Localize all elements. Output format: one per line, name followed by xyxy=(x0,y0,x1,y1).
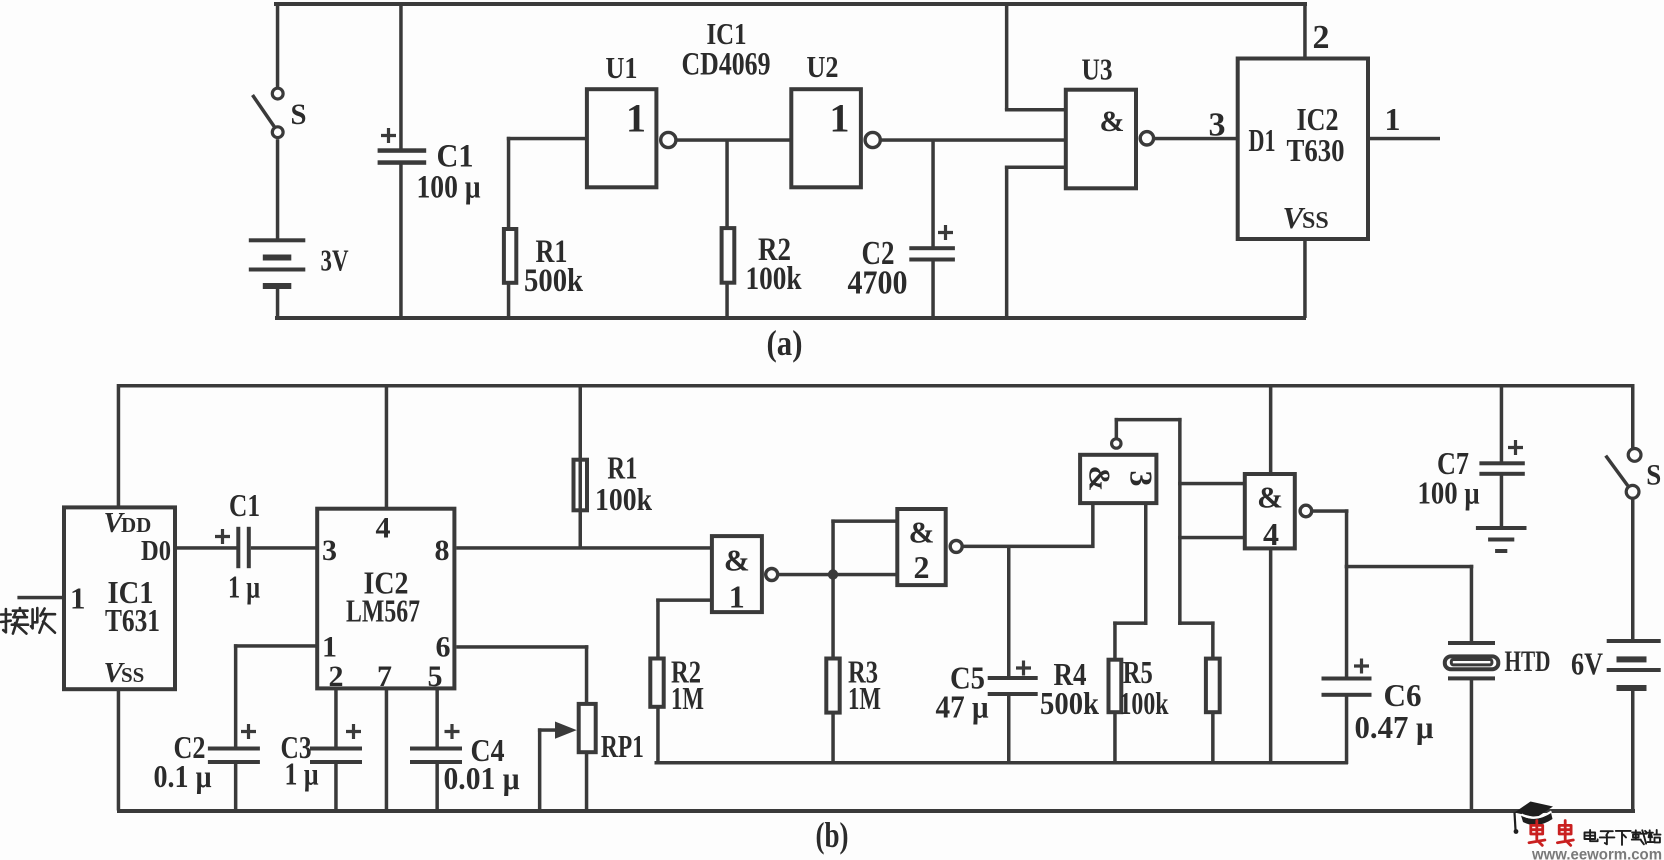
svg-text:8: 8 xyxy=(435,534,450,567)
capacitor C1 polarity + xyxy=(381,128,396,143)
svg-text:500k: 500k xyxy=(1040,685,1099,721)
resistor R2b xyxy=(650,659,663,707)
nand gate 2 output bubble xyxy=(950,540,962,552)
svg-text:6: 6 xyxy=(436,631,451,664)
capacitor C6 top plate xyxy=(1322,677,1372,681)
battery 3V plate long top xyxy=(249,238,305,242)
svg-text:47 μ: 47 μ xyxy=(936,689,989,725)
svg-text:4700: 4700 xyxy=(848,265,908,302)
svg-text:1M: 1M xyxy=(848,680,881,716)
svg-text:0.1 μ: 0.1 μ xyxy=(154,758,212,794)
wire: jog to R5 top xyxy=(1178,621,1215,625)
wire: LM567 pin2 to C3 xyxy=(334,690,338,749)
svg-text:www.eeworm.com: www.eeworm.com xyxy=(1531,847,1662,860)
wire: gate4 ground pin to sub rail xyxy=(1269,548,1273,764)
svg-text:3V: 3V xyxy=(321,242,349,277)
nand gate 3 output bubble xyxy=(1112,439,1121,448)
wire: U2 output to U3 input xyxy=(881,138,1066,142)
svg-text:3: 3 xyxy=(1209,107,1226,144)
svg-text:LM567: LM567 xyxy=(346,593,420,629)
capacitor C3 top plate xyxy=(310,747,362,751)
wire: C5 lower lead xyxy=(1007,695,1011,764)
wire: U3 third input drop to bottom rail xyxy=(1005,166,1009,319)
wire: circuit (a) bottom rail xyxy=(275,316,1306,320)
svg-text:S: S xyxy=(1646,459,1661,492)
svg-text:&: & xyxy=(1083,466,1118,492)
wire: U1 output to U2 input xyxy=(677,138,791,142)
wire: U3 first input horizontal xyxy=(1005,108,1066,112)
svg-text:0.01 μ: 0.01 μ xyxy=(444,760,520,796)
svg-text:CD4069: CD4069 xyxy=(682,46,771,82)
wire: C5 upper lead xyxy=(1007,546,1011,678)
wire: circuit (a) top rail xyxy=(274,2,1307,6)
wire: LM567 pin6 horizontal xyxy=(456,645,588,649)
resistor R1 xyxy=(504,229,516,283)
wire: switch to battery xyxy=(276,139,280,240)
wire: RP1 top lead xyxy=(585,645,589,703)
IC2 LM567 body xyxy=(317,509,454,689)
inverter U2 output bubble xyxy=(865,132,880,147)
wire: R1 top node to U1 input xyxy=(507,137,588,141)
capacitor C1 top lead xyxy=(399,2,403,149)
capacitor C3 bottom plate xyxy=(310,760,362,764)
potentiometer RP1 wiper arrow xyxy=(555,722,577,739)
wire: HTD lower lead to bottom rail xyxy=(1470,680,1474,811)
capacitor C7 bottom plate xyxy=(1479,472,1524,476)
svg-text:RP1: RP1 xyxy=(601,728,644,764)
wire: C7 to ground xyxy=(1500,475,1504,528)
capacitor C1 bottom plate xyxy=(378,160,427,165)
wire: top rail right corner down to switch xyxy=(1631,384,1635,448)
svg-text:(b): (b) xyxy=(816,815,849,855)
svg-text:1: 1 xyxy=(729,579,745,615)
svg-text:DD: DD xyxy=(121,513,151,537)
nand gate U3 body xyxy=(1066,90,1136,189)
wire: gate4 power pin to top rail xyxy=(1269,384,1273,474)
wire: R2 lower lead xyxy=(725,283,729,318)
capacitor C2 bottom plate xyxy=(909,258,955,262)
capacitor C7 top plate xyxy=(1479,461,1524,465)
wire: gate4 upper input xyxy=(1178,482,1245,486)
svg-text:(a): (a) xyxy=(767,323,803,363)
svg-text:5: 5 xyxy=(428,660,443,693)
nand gate 4 output bubble xyxy=(1300,505,1312,517)
svg-text:D1: D1 xyxy=(1249,122,1276,158)
capacitor C2 top plate xyxy=(909,246,955,250)
wire: gate4 lower input xyxy=(1178,536,1245,540)
wire: C2b lower lead xyxy=(234,764,238,811)
resistor R1b xyxy=(574,460,588,511)
battery 3V plate long lower xyxy=(249,268,305,272)
ground symbol line 3 xyxy=(1495,549,1507,553)
wire: gate2 output toward gate3 xyxy=(964,545,1095,549)
resistor R3 xyxy=(826,659,839,713)
wire: T631 VSS pin to bottom rail xyxy=(117,690,121,811)
svg-text:D0: D0 xyxy=(141,535,171,567)
capacitor C2b top plate xyxy=(208,747,260,751)
svg-text:T631: T631 xyxy=(105,602,160,638)
switch Sb contact top xyxy=(1628,449,1641,462)
svg-text:U1: U1 xyxy=(606,50,638,85)
wire: R1 upper lead xyxy=(507,137,511,230)
wire: IC2 bottom pin to bottom rail xyxy=(1303,239,1307,318)
buzzer HTD body xyxy=(1445,656,1499,669)
wire: C2 lower lead xyxy=(931,261,935,318)
wire: LM567 pin4 to top rail xyxy=(385,384,389,509)
nand gate 1 body xyxy=(712,536,762,612)
wire: feedback vertical xyxy=(1178,418,1182,625)
wire: LM567 pin1 horizontal xyxy=(234,644,317,648)
wire: battery 6V to bottom rail xyxy=(1631,689,1635,811)
capacitor C1b right plate xyxy=(247,527,251,568)
svg-text:4: 4 xyxy=(1263,516,1279,552)
switch S contact top xyxy=(272,88,283,99)
svg-text:3: 3 xyxy=(1124,471,1160,487)
switch Sb contact bottom xyxy=(1626,485,1639,498)
wire: C2b upper lead xyxy=(234,644,238,748)
resistor R4 xyxy=(1109,660,1122,713)
capacitor C5 top plate xyxy=(988,676,1038,680)
watermark graduation cap xyxy=(1515,802,1554,818)
svg-text:0.47 μ: 0.47 μ xyxy=(1355,709,1434,745)
wire: gate1 lower input horizontal xyxy=(656,598,712,602)
svg-text:500k: 500k xyxy=(524,263,584,299)
capacitor C5 bottom plate xyxy=(988,692,1038,696)
battery 6V plate short thick lower xyxy=(1617,685,1647,691)
svg-text:SS: SS xyxy=(1302,208,1329,234)
wire: T631 VDD pin to top rail xyxy=(117,384,121,508)
svg-text:2: 2 xyxy=(1313,19,1330,56)
wire: circuit (b) top rail xyxy=(117,384,1635,388)
svg-text:1: 1 xyxy=(322,631,337,664)
wire: jog to gate2 upper input xyxy=(831,519,896,523)
wire: battery to bottom rail xyxy=(276,289,280,319)
wire: jog to R4 top xyxy=(1113,621,1147,625)
IC1 T631 body xyxy=(64,507,175,689)
wire: C1 to LM567 pin3 xyxy=(251,546,317,550)
battery 6V plate short thick xyxy=(1617,656,1647,662)
svg-text:1: 1 xyxy=(70,580,86,615)
inverter U1 output bubble xyxy=(661,132,676,147)
IC U4 T630 body xyxy=(1238,59,1368,240)
switch S contact bottom xyxy=(272,127,283,138)
wire: U3 third input horizontal xyxy=(1005,166,1066,170)
switch S blade xyxy=(253,95,275,127)
svg-text:7: 7 xyxy=(377,660,392,693)
svg-text:C6: C6 xyxy=(1384,677,1422,713)
svg-text:1 μ: 1 μ xyxy=(228,569,260,605)
svg-text:1 μ: 1 μ xyxy=(285,755,319,791)
svg-text:100k: 100k xyxy=(746,261,803,297)
svg-text:HTD: HTD xyxy=(1505,645,1551,678)
wire: R5 upper lead xyxy=(1211,621,1215,659)
svg-text:U3: U3 xyxy=(1082,52,1113,87)
capacitor C6 polarity + xyxy=(1354,659,1369,674)
wire: R2 upper lead xyxy=(725,140,729,228)
svg-text:&: & xyxy=(1100,105,1125,138)
svg-text:&: & xyxy=(1257,480,1283,515)
label jieshou (receive) xyxy=(1,608,28,634)
wire: junction down to R3 xyxy=(831,575,835,659)
wire: C6 lower lead xyxy=(1345,696,1349,764)
wire: U3 output to IC2 pin3 xyxy=(1155,137,1236,141)
wire: gate4 output drop xyxy=(1345,509,1349,568)
wire: gate3 left input riser xyxy=(1091,503,1095,548)
switch Sb blade xyxy=(1606,456,1628,486)
svg-text:&: & xyxy=(909,515,935,550)
buzzer HTD bottom electrode xyxy=(1448,676,1495,680)
svg-text:SS: SS xyxy=(121,663,144,687)
wire: R1b from top rail xyxy=(579,384,583,550)
wire: switch to battery 6V xyxy=(1631,500,1635,641)
wire: gate3 output horizontal xyxy=(1115,418,1182,422)
wire: LM567 pin8 to gate 1 input xyxy=(456,546,712,550)
nand gate U3 output bubble xyxy=(1140,132,1153,145)
svg-text:100 μ: 100 μ xyxy=(417,170,481,206)
wire: HTD upper lead xyxy=(1470,565,1474,644)
capacitor C7 polarity + xyxy=(1508,440,1523,455)
wire: C3 lower lead xyxy=(334,764,338,811)
wire: C4 lower lead xyxy=(435,764,439,811)
nand gate 1 output bubble xyxy=(766,569,778,581)
wire: junction jog up xyxy=(831,519,835,576)
wire: R4 upper lead xyxy=(1113,621,1117,660)
watermark chongchong red characters xyxy=(1529,821,1545,846)
wire: LM567 pin7 to bottom rail xyxy=(385,690,389,811)
capacitor C3 polarity + xyxy=(346,724,361,739)
ground symbol line 1 xyxy=(1476,526,1527,530)
wire: C7 upper lead xyxy=(1500,384,1504,463)
svg-text:100k: 100k xyxy=(1120,685,1169,721)
potentiometer RP1 wiper wire xyxy=(538,728,560,732)
capacitor C2 polarity + xyxy=(938,225,953,240)
capacitor C1 top plate xyxy=(378,148,427,153)
svg-text:1M: 1M xyxy=(671,680,704,716)
battery 3V plate short thick xyxy=(263,255,292,261)
wire: gate1 lower input drop to R2b xyxy=(656,598,660,658)
wire: IC2 pin2 from top rail xyxy=(1303,2,1307,58)
nand gate 2 body xyxy=(897,509,945,585)
svg-text:2: 2 xyxy=(914,549,930,585)
svg-text:3: 3 xyxy=(322,534,337,567)
wire: U3 first input drop from top rail xyxy=(1005,2,1009,110)
resistor R2 xyxy=(722,228,735,283)
wire: R5 lower lead xyxy=(1211,712,1215,764)
wire: R2b lower lead xyxy=(656,707,660,764)
svg-text:T630: T630 xyxy=(1287,132,1345,168)
capacitor C4 top plate xyxy=(410,747,462,751)
capacitor C1b polarity + xyxy=(215,529,230,544)
wire: gate3 output riser xyxy=(1115,418,1119,438)
inverter U1 body xyxy=(587,89,657,187)
wire: gate1 output to gate2 lower input xyxy=(779,573,896,577)
wire: C6 upper lead xyxy=(1345,565,1349,678)
capacitor C1 bottom lead xyxy=(399,165,403,319)
svg-text:1: 1 xyxy=(1385,101,1401,137)
svg-text:U2: U2 xyxy=(807,49,839,84)
svg-text:4: 4 xyxy=(376,512,391,545)
nand gate 3 body (rotated) xyxy=(1080,455,1156,503)
watermark site name characters xyxy=(1585,830,1598,841)
wire: gate3 right input drop xyxy=(1144,503,1148,625)
junction node dot xyxy=(828,569,838,579)
battery 3V plate short thick lower xyxy=(263,283,292,289)
svg-text:&: & xyxy=(724,543,750,578)
wire: R4 lower lead xyxy=(1113,712,1117,764)
inverter U2 body xyxy=(791,89,861,187)
wire: R1 lower lead xyxy=(507,282,511,318)
wire: RP1 wiper to bottom rail xyxy=(538,728,542,810)
ground symbol line 2 xyxy=(1488,538,1514,542)
battery 6V plate long lower xyxy=(1607,668,1661,672)
wire: sub ground rail of timing network xyxy=(655,761,1349,765)
buzzer HTD inner plate xyxy=(1451,660,1492,665)
capacitor C5 polarity + xyxy=(1016,661,1031,676)
wire: R3 lower lead xyxy=(831,713,835,764)
wire: circuit (b) bottom rail xyxy=(117,809,1635,813)
wire: to HTD horizontal xyxy=(1345,565,1474,569)
wire: IC2 pin1 output xyxy=(1370,137,1440,141)
wire: battery branch upper segment xyxy=(276,2,280,87)
wire: gate4 output horizontal xyxy=(1313,509,1349,513)
resistor R5 xyxy=(1206,659,1220,713)
battery 6V plate long top xyxy=(1607,639,1661,643)
svg-text:100k: 100k xyxy=(595,481,652,517)
svg-text:6V: 6V xyxy=(1571,646,1603,682)
capacitor C4 bottom plate xyxy=(410,760,462,764)
wire: D0 to C1 xyxy=(177,546,238,550)
wire: C2 upper lead xyxy=(931,140,935,248)
svg-text:100 μ: 100 μ xyxy=(1418,475,1480,511)
svg-text:1: 1 xyxy=(830,96,850,141)
buzzer HTD top electrode xyxy=(1448,641,1495,645)
capacitor C2b polarity + xyxy=(241,724,256,739)
capacitor C2b bottom plate xyxy=(208,760,260,764)
svg-text:S: S xyxy=(291,98,307,131)
nand gate 4 body xyxy=(1245,474,1295,548)
wire: receive input stub to pin 1 xyxy=(17,596,62,600)
potentiometer RP1 body xyxy=(579,704,596,752)
wire: LM567 pin5 to C4 xyxy=(435,690,439,749)
capacitor C6 bottom plate xyxy=(1322,693,1372,697)
wire: RP1 bottom lead to bottom rail xyxy=(585,752,589,811)
svg-text:2: 2 xyxy=(329,660,344,693)
svg-text:1: 1 xyxy=(626,96,646,141)
capacitor C4 polarity + xyxy=(445,724,460,739)
svg-text:C1: C1 xyxy=(229,487,260,523)
capacitor C1b left plate xyxy=(236,527,240,568)
